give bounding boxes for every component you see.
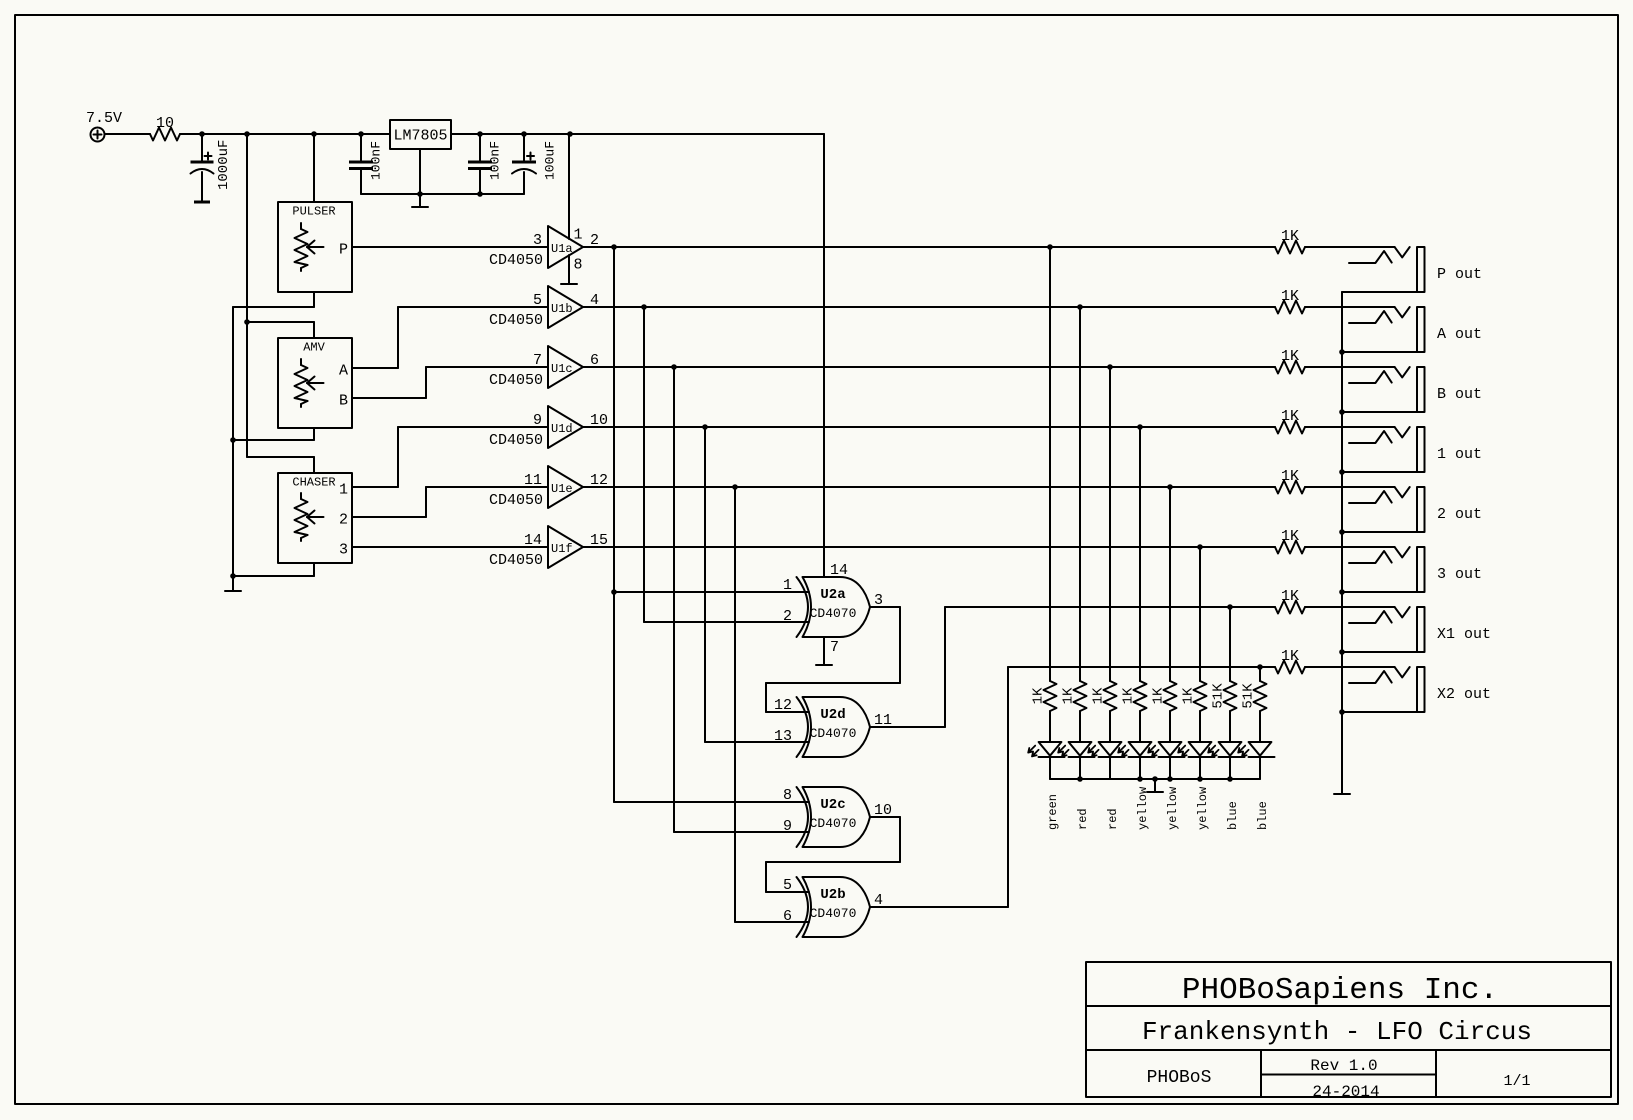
junction row B/XOR feed (671, 364, 677, 370)
wire to jack B out (1305, 366, 1395, 368)
wire to jack 1 out (1305, 426, 1395, 428)
wire to jack 3 out (1305, 546, 1395, 548)
svg-text:3: 3 (533, 232, 542, 249)
svg-text:LM7805: LM7805 (393, 128, 447, 145)
svg-text:1K: 1K (1281, 348, 1299, 365)
svg-text:X2 out: X2 out (1437, 686, 1491, 703)
LED 6 emission arrows (1178, 746, 1185, 753)
junction row 2/LED feed (1167, 484, 1173, 490)
wire B down to U2c (673, 367, 675, 832)
junction rail/100nF2 (477, 131, 483, 137)
junction LED bus (1137, 776, 1143, 782)
svg-text:CD4070: CD4070 (810, 816, 857, 831)
LED 7 emission arrows (1208, 746, 1215, 753)
svg-text:11: 11 (524, 472, 542, 489)
junction rail/PULSER top (311, 131, 317, 137)
wire CHASER gnd (233, 575, 314, 577)
svg-text:CD4050: CD4050 (489, 372, 543, 389)
svg-text:13: 13 (774, 728, 792, 745)
potentiometer symbol (PULSER) (300, 223, 302, 229)
wire chaser1 riser (397, 427, 399, 487)
wire PULSER gnd (233, 306, 314, 308)
wire LED column 6 from row (1199, 547, 1201, 681)
wire LED 8 cathode (1259, 757, 1261, 779)
jack X1 out body (1417, 607, 1425, 652)
wire resistor to LED 1 (1049, 711, 1051, 742)
svg-text:PHOBoS: PHOBoS (1147, 1068, 1212, 1088)
resistor 1K output 1 out (1275, 421, 1305, 434)
resistor 1K LED yellow 5 (1164, 681, 1177, 711)
svg-text:red: red (1106, 808, 1120, 830)
xor gate U2a CD4070 (803, 577, 871, 637)
potentiometer symbol (AMV) (300, 359, 302, 365)
LED 4 emission arrows (1118, 746, 1125, 753)
svg-text:green: green (1046, 794, 1060, 830)
LED 3 emission arrows (1088, 746, 1095, 753)
junction rail/U1 power (567, 131, 573, 137)
junction row P/LED feed (1047, 244, 1053, 250)
wire U2d out riser (944, 607, 946, 727)
resistor 1K LED yellow 4 (1134, 681, 1147, 711)
ground pots (225, 590, 241, 592)
svg-text:PHOBoSapiens Inc.: PHOBoSapiens Inc. (1182, 973, 1498, 1008)
wire chaser2 out (352, 516, 426, 518)
wire U2a out drop (899, 607, 901, 683)
LM7805 ground pin (419, 149, 421, 194)
wire R to LM7805 input (180, 133, 390, 135)
power source +7.5V (91, 128, 105, 142)
svg-text:blue: blue (1226, 801, 1240, 830)
LED blue 7 (1219, 742, 1242, 756)
svg-text:1K: 1K (1061, 687, 1077, 704)
wire +V down to pots (246, 134, 248, 457)
junction LED bus (1227, 776, 1233, 782)
junction LED bus (1077, 776, 1083, 782)
svg-text:1K: 1K (1091, 687, 1107, 704)
junction jack gnd B out (1339, 409, 1345, 415)
jack 2 out tip contact (1349, 491, 1392, 503)
wire LM7805 out rail (451, 133, 824, 135)
svg-text:14: 14 (524, 532, 542, 549)
wire cap ground bus (361, 193, 524, 195)
wire row X1 out (945, 606, 1275, 608)
svg-text:2: 2 (339, 512, 348, 529)
resistor 1K output X1 out (1275, 601, 1305, 614)
wire LED 3 cathode (1109, 757, 1111, 779)
junction jack gnd 2 out (1339, 529, 1345, 535)
wire jack A out sleeve (1342, 351, 1417, 353)
svg-text:2: 2 (783, 608, 792, 625)
U2a pin 14 (VDD) (823, 134, 825, 577)
wire B riser (425, 367, 427, 398)
svg-text:1000uF: 1000uF (216, 140, 232, 190)
jack 3 out tip contact (1349, 551, 1392, 563)
svg-text:14: 14 (830, 562, 848, 579)
buffer U1b CD4050 (548, 286, 583, 328)
resistor 51K LED blue 8 (1254, 681, 1267, 711)
svg-text:1K: 1K (1281, 228, 1299, 245)
resistor 10 zigzag (150, 128, 180, 141)
svg-text:B out: B out (1437, 386, 1482, 403)
svg-text:U2a: U2a (820, 587, 846, 603)
wire row 2 out (583, 486, 1275, 488)
junction AMV gnd (230, 437, 236, 443)
wire CHASER top pin (313, 457, 315, 473)
LED yellow 5 (1159, 742, 1182, 756)
LED yellow 6 (1189, 742, 1212, 756)
wire LED 2 cathode (1079, 757, 1081, 779)
wire row 3 out (583, 546, 1275, 548)
junction row 2/XOR feed (732, 484, 738, 490)
resistor 1K LED yellow 6 (1194, 681, 1207, 711)
jack ground bus (1341, 292, 1343, 794)
wire B out (352, 397, 426, 399)
wire to CHASER top (247, 456, 314, 458)
resistor 1K output P out (1275, 241, 1305, 254)
wire to U2b pin5 (765, 862, 767, 892)
svg-text:24-2014: 24-2014 (1312, 1083, 1379, 1101)
ground jacks (1334, 793, 1350, 795)
wire to U2d pin12 (765, 683, 767, 712)
junction jack gnd X1 out (1339, 649, 1345, 655)
junction row A/XOR feed (641, 304, 647, 310)
potentiometer symbol (CHASER) (300, 493, 302, 499)
wire U2b out riser (1007, 667, 1009, 907)
jack B out tip contact (1349, 371, 1392, 383)
pot AMV box (278, 338, 352, 428)
wire row 1 out (583, 426, 1275, 428)
wire row P out (583, 246, 1275, 248)
wire LED bus to ground (1154, 779, 1156, 792)
svg-text:CD4050: CD4050 (489, 552, 543, 569)
capacitor 1000uF (201, 134, 203, 162)
svg-text:CD4070: CD4070 (810, 726, 857, 741)
jack 2 out body (1417, 487, 1425, 532)
wire U2c out back (766, 861, 900, 863)
wire to U1e in (426, 486, 548, 488)
LED 5 emission arrows (1148, 746, 1155, 753)
wire jack 1 out sleeve (1342, 471, 1417, 473)
wire resistor to LED 7 (1229, 711, 1231, 742)
wire to jack X2 out (1305, 666, 1395, 668)
svg-text:1K: 1K (1181, 687, 1197, 704)
wire row X2 out (1008, 666, 1275, 668)
svg-text:CD4070: CD4070 (810, 906, 857, 921)
jack A out switch contact (1395, 307, 1410, 317)
svg-text:3: 3 (339, 542, 348, 559)
resistor 1K LED green 1 (1044, 681, 1057, 711)
jack 1 out body (1417, 427, 1425, 472)
title block (1086, 962, 1611, 1097)
jack B out switch contact (1395, 367, 1410, 377)
wire LED column 5 from row (1169, 487, 1171, 681)
resistor 51K LED blue 7 (1224, 681, 1237, 711)
svg-text:CD4050: CD4050 (489, 432, 543, 449)
wire LED column 3 from row (1109, 367, 1111, 681)
wire LED 7 cathode (1229, 757, 1231, 779)
svg-text:1K: 1K (1281, 648, 1299, 665)
wire U2d pin12 (766, 711, 809, 713)
svg-text:3 out: 3 out (1437, 566, 1482, 583)
capacitor 100uF polarized (523, 134, 525, 162)
svg-text:1K: 1K (1281, 588, 1299, 605)
wiper arrow (AMV) (307, 382, 324, 384)
regulator LM7805 (390, 120, 451, 149)
svg-text:8: 8 (783, 787, 792, 804)
svg-text:CD4050: CD4050 (489, 252, 543, 269)
svg-text:100uF: 100uF (543, 141, 558, 180)
svg-text:9: 9 (783, 818, 792, 835)
wire LED 6 cathode (1199, 757, 1201, 779)
LED yellow 4 (1129, 742, 1152, 756)
jack X2 out body (1417, 667, 1425, 712)
svg-text:1: 1 (339, 482, 348, 499)
LED red 2 (1069, 742, 1092, 756)
ground LEDs (1147, 791, 1163, 793)
junction P/U2a pin1 (611, 589, 617, 595)
LED blue 8 (1249, 742, 1272, 756)
svg-text:U1c: U1c (551, 362, 573, 376)
wire U2b pin5 (766, 891, 809, 893)
resistor 1K LED red 3 (1104, 681, 1117, 711)
wire resistor to LED 8 (1259, 711, 1261, 742)
wire to jack P out (1305, 246, 1395, 248)
svg-text:red: red (1076, 808, 1090, 830)
wire jack P out sleeve (1342, 291, 1417, 293)
junction row P/XOR feed (611, 244, 617, 250)
U2a pin 7 (VSS) (823, 637, 825, 665)
jack B out body (1417, 367, 1425, 412)
wire to jack X1 out (1305, 606, 1395, 608)
pot CHASER box (278, 473, 352, 563)
wire to jack A out (1305, 306, 1395, 308)
resistor 1K output 2 out (1275, 481, 1305, 494)
wire U2a out (870, 606, 900, 608)
svg-text:1K: 1K (1281, 408, 1299, 425)
wire jack X2 out sleeve (1342, 711, 1417, 713)
wire A riser (397, 307, 399, 368)
resistor 1K output A out (1275, 301, 1305, 314)
wire resistor to LED 2 (1079, 711, 1081, 742)
junction row 1/XOR feed (702, 424, 708, 430)
wire U2c out drop (899, 817, 901, 862)
ground regulator (412, 206, 428, 208)
jack P out switch contact (1395, 247, 1410, 257)
svg-text:5: 5 (533, 292, 542, 309)
junction jack gnd X2 out (1339, 709, 1345, 715)
junction LED bus gnd (1152, 776, 1158, 782)
wire to U1c in (426, 366, 548, 368)
resistor 1K output 3 out (1275, 541, 1305, 554)
wire to U1d in (398, 426, 548, 428)
wire LED column 1 from row (1049, 247, 1051, 681)
svg-text:U2c: U2c (820, 797, 845, 813)
resistor 1K LED red 2 (1074, 681, 1087, 711)
wire U2b pin6 (735, 921, 809, 923)
wire pot ground bus (232, 307, 234, 591)
svg-text:1 out: 1 out (1437, 446, 1482, 463)
svg-text:Frankensynth - LFO Circus: Frankensynth - LFO Circus (1142, 1017, 1532, 1047)
xor gate U2b CD4070 (803, 877, 871, 937)
wire LED 1 cathode (1049, 757, 1051, 779)
svg-text:8: 8 (574, 257, 583, 274)
svg-text:1K: 1K (1151, 687, 1167, 704)
wire resistor to LED 5 (1169, 711, 1171, 742)
capacitor 100nF (input side) (360, 134, 362, 162)
wiper arrow (CHASER) (307, 516, 324, 518)
svg-text:AMV: AMV (303, 341, 325, 355)
LED ground bus (1050, 778, 1260, 780)
wire 1 down to U2d (704, 427, 706, 742)
svg-text:1K: 1K (1031, 687, 1047, 704)
buffer U1f CD4050 (548, 526, 583, 568)
junction CHASER gnd (230, 573, 236, 579)
svg-text:1: 1 (574, 227, 583, 244)
LED red 3 (1099, 742, 1122, 756)
junction rail/pot supply (244, 131, 250, 137)
wire LED column 4 from row (1139, 427, 1141, 681)
resistor 1K output B out (1275, 361, 1305, 374)
junction LED bus (1167, 776, 1173, 782)
svg-text:yellow: yellow (1196, 786, 1210, 830)
jack P out tip contact (1349, 251, 1392, 263)
wire chaser2 riser (425, 487, 427, 517)
svg-text:CHASER: CHASER (292, 476, 335, 490)
junction row B/LED feed (1107, 364, 1113, 370)
wire LED column 8 from row (1259, 667, 1261, 681)
jack 1 out tip contact (1349, 431, 1392, 443)
junction gnd bus/100nF2 (477, 191, 483, 197)
buffer U1d CD4050 (548, 406, 583, 448)
svg-text:PULSER: PULSER (292, 205, 335, 219)
svg-text:CD4070: CD4070 (810, 606, 857, 621)
wire jack X1 out sleeve (1342, 651, 1417, 653)
buffer U1e CD4050 (548, 466, 583, 508)
wire U2d out (870, 726, 945, 728)
wire U2a out back (766, 682, 900, 684)
junction rail/1000uF (199, 131, 205, 137)
wire U2c pin9 (674, 831, 809, 833)
junction rail/100uF (521, 131, 527, 137)
junction gnd bus/LM7805 (417, 191, 423, 197)
wire chaser3 to U1f in (352, 546, 548, 548)
jack X1 out switch contact (1395, 607, 1410, 617)
wire jack 3 out sleeve (1342, 591, 1417, 593)
svg-text:A: A (339, 363, 348, 380)
svg-text:1K: 1K (1281, 468, 1299, 485)
svg-text:P out: P out (1437, 266, 1482, 283)
svg-text:B: B (339, 393, 348, 410)
jack 3 out body (1417, 547, 1425, 592)
svg-text:1: 1 (783, 577, 792, 594)
wire U2c pin8 (614, 801, 809, 803)
wire to jack 2 out (1305, 486, 1395, 488)
svg-text:U1a: U1a (551, 242, 573, 256)
plus mark 1000uF (205, 155, 212, 157)
svg-text:CD4050: CD4050 (489, 492, 543, 509)
wire jack B out sleeve (1342, 411, 1417, 413)
wire resistor to LED 3 (1109, 711, 1111, 742)
svg-text:U1e: U1e (551, 482, 573, 496)
junction LED bus (1197, 776, 1203, 782)
jack X2 out tip contact (1349, 671, 1392, 683)
svg-text:1K: 1K (1281, 528, 1299, 545)
svg-text:X1 out: X1 out (1437, 626, 1491, 643)
jack A out tip contact (1349, 311, 1392, 323)
jack 3 out switch contact (1395, 547, 1410, 557)
junction row X1/LED feed (1227, 604, 1233, 610)
wire resistor to LED 4 (1139, 711, 1141, 742)
ground U1a (561, 283, 577, 285)
svg-text:51K: 51K (1241, 683, 1257, 709)
ground U2a (816, 664, 832, 666)
svg-text:U1f: U1f (551, 542, 573, 556)
xor gate U2d CD4070 (803, 697, 871, 757)
svg-text:1K: 1K (1281, 288, 1299, 305)
wire 2 down to U2b (734, 487, 736, 922)
svg-text:A out: A out (1437, 326, 1482, 343)
svg-text:blue: blue (1256, 801, 1270, 830)
junction rail/100nF1 (358, 131, 364, 137)
wire chaser1 out (352, 486, 398, 488)
junction row 3/LED feed (1197, 544, 1203, 550)
svg-text:U2d: U2d (820, 707, 845, 723)
wire LED 5 cathode (1169, 757, 1171, 779)
wire U2b out (870, 906, 1008, 908)
wire jack 2 out sleeve (1342, 531, 1417, 533)
wire resistor to LED 6 (1199, 711, 1201, 742)
jack P out body (1417, 247, 1425, 292)
wire to AMV top (247, 321, 314, 323)
wire U2a pin2 (644, 621, 809, 623)
svg-text:2 out: 2 out (1437, 506, 1482, 523)
svg-text:51K: 51K (1211, 683, 1227, 709)
wire to ground (419, 194, 421, 207)
junction row X2/LED feed (1257, 664, 1263, 670)
jack 1 out switch contact (1395, 427, 1410, 437)
wire A out (352, 367, 398, 369)
junction row A/LED feed (1077, 304, 1083, 310)
pot PULSER box (278, 202, 352, 292)
wire to U1b in (398, 306, 548, 308)
svg-text:100nF: 100nF (369, 141, 384, 180)
junction jack gnd A out (1339, 349, 1345, 355)
junction row 1/LED feed (1137, 424, 1143, 430)
svg-text:yellow: yellow (1166, 786, 1180, 830)
wire PULSER top pin (313, 134, 315, 202)
svg-text:1/1: 1/1 (1503, 1073, 1530, 1090)
wire LED column 7 from row (1229, 607, 1231, 681)
svg-text:9: 9 (533, 412, 542, 429)
wire U2a pin1 (614, 591, 809, 593)
svg-text:U2b: U2b (820, 887, 845, 903)
U1a pin 1 (VDD) (568, 134, 570, 239)
wire AMV bottom pin (313, 428, 315, 440)
svg-text:10: 10 (156, 115, 174, 132)
LED green 1 (1039, 742, 1062, 756)
wire LED column 2 from row (1079, 307, 1081, 681)
svg-text:7: 7 (830, 639, 839, 656)
resistor 1K output X2 out (1275, 661, 1305, 674)
svg-text:6: 6 (783, 908, 792, 925)
wire A down to U2a (643, 307, 645, 622)
wire AMV gnd (233, 439, 314, 441)
wire PULSER bottom pin (313, 292, 315, 307)
wire LED 4 cathode (1139, 757, 1141, 779)
plus mark 100uF (527, 155, 534, 157)
LED 1 emission arrows (1028, 746, 1035, 753)
junction AMV supply (244, 319, 250, 325)
